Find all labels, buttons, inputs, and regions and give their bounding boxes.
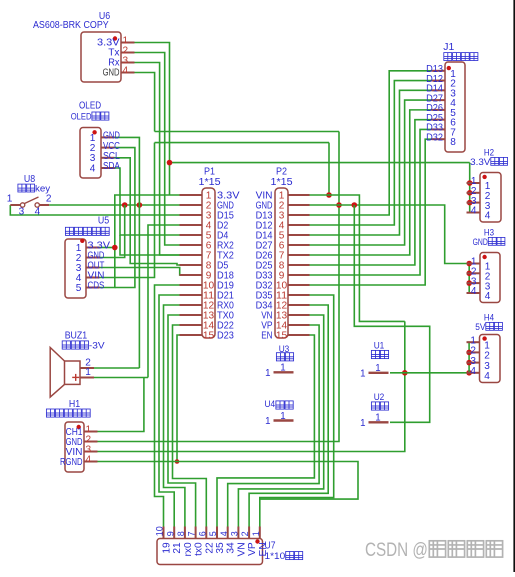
H4 pins: [467, 335, 491, 382]
component P1 box: [202, 188, 215, 338]
wire GND rail: [155, 131, 339, 133]
wire J1 pin6 net: [310, 120, 432, 265]
component H3 box: [480, 253, 500, 303]
wire 3V3 rail: [170, 162, 470, 164]
svg-text:1: 1: [265, 416, 270, 427]
svg-text:1: 1: [360, 368, 365, 379]
U5 labels: [65, 216, 109, 236]
wire D35: [260, 295, 334, 527]
wire VP: [228, 325, 319, 527]
BUZ1 labels: [62, 331, 105, 352]
svg-text:1: 1: [280, 411, 285, 422]
svg-text:5: 5: [76, 283, 82, 294]
wire GND to U2: [354, 205, 429, 422]
svg-text:8: 8: [176, 531, 186, 536]
junction H2 p3: [467, 200, 473, 206]
wire U8 right GND: [49, 204, 179, 206]
wire H2 s2: [467, 192, 470, 194]
wire OLED SCL: [115, 158, 180, 265]
wire D21: [159, 295, 180, 527]
svg-text:GND: GND: [103, 68, 120, 79]
wire J1 pin1 net: [310, 71, 432, 215]
wire P2 VIN row: [310, 195, 405, 321]
wire U5 OUT: [100, 268, 182, 276]
component P2 box: [275, 188, 288, 338]
svg-text:21: 21: [172, 542, 183, 554]
svg-text:2: 2: [240, 531, 250, 536]
J1 labels: [443, 42, 478, 61]
wire J1 pin8 net: [310, 139, 432, 285]
U5 pins: [76, 241, 111, 294]
U8 labels: [18, 174, 51, 194]
wire U6 pin2 Tx: [135, 53, 180, 246]
svg-text:15: 15: [276, 330, 288, 341]
U3 labels: [276, 344, 293, 361]
component H2 box: [480, 173, 501, 223]
svg-text:4: 4: [471, 286, 477, 297]
wire D34: [249, 305, 328, 527]
U7 labels: [265, 541, 303, 562]
junction H4 p2: [466, 350, 472, 356]
junction 5V U1row: [402, 370, 408, 376]
wire GND drop x339: [98, 132, 340, 442]
P2 labels: [271, 167, 294, 189]
wire H4 stub2: [467, 351, 470, 353]
wire J1 pin5 net: [310, 110, 432, 255]
junction H3 p2: [466, 271, 472, 277]
svg-text:9: 9: [165, 531, 175, 536]
svg-text:3: 3: [19, 207, 25, 218]
P1 labels: [199, 167, 222, 189]
svg-text:4: 4: [485, 211, 491, 222]
wire U1 row: [390, 372, 467, 374]
U5 pin1 marker: [80, 239, 84, 243]
H4 labels: [475, 313, 502, 332]
svg-text:4: 4: [123, 66, 129, 77]
svg-text:OLED: OLED: [71, 111, 92, 122]
wire U6 pin1 3.3V: [135, 43, 170, 196]
svg-text:U5: U5: [98, 216, 110, 227]
svg-text:10: 10: [155, 526, 165, 536]
svg-text:1: 1: [280, 363, 285, 374]
U1 labels: [371, 341, 388, 359]
svg-text:6: 6: [197, 531, 207, 536]
junction H2 p1: [467, 180, 473, 186]
junction GND b: [137, 202, 143, 208]
component U7 box: [157, 539, 263, 565]
wire H2 s3: [467, 202, 470, 204]
H2 labels: [470, 148, 507, 167]
U7 pins: [155, 526, 269, 556]
wire J1 pin2 net: [310, 81, 432, 225]
wire H4 column: [467, 342, 470, 373]
wire H2 s1: [467, 182, 470, 184]
junction H4 feed: [466, 370, 472, 376]
wire 5V drop P2VIN: [328, 143, 330, 195]
svg-text:CDS: CDS: [88, 281, 105, 292]
junction GND P2: [336, 202, 342, 208]
wire H3 s3: [467, 282, 470, 284]
svg-text:1: 1: [251, 531, 261, 536]
svg-text:EN: EN: [258, 542, 269, 556]
svg-text:4: 4: [470, 366, 476, 377]
U1 pin text: [360, 363, 381, 379]
H1 pin1 marker: [77, 425, 81, 429]
svg-text:SDA: SDA: [103, 161, 120, 172]
wire U5 GND: [100, 205, 125, 258]
svg-text:EN: EN: [261, 330, 272, 341]
wire 5V drop U5VIN: [100, 143, 155, 278]
svg-text:P1: P1: [204, 167, 215, 178]
H3 pins: [467, 257, 491, 303]
OLED labels: [71, 101, 109, 122]
wire H4 stub3: [467, 362, 470, 364]
wire 5V rail: [155, 142, 330, 144]
svg-text:GND: GND: [473, 237, 488, 247]
junction H3 p1: [466, 261, 472, 267]
component J1 box: [445, 62, 465, 152]
svg-text:4: 4: [471, 206, 477, 217]
svg-text:15: 15: [203, 330, 215, 341]
junction 3V3 rail: [167, 160, 173, 166]
wire H1 CH1: [98, 378, 144, 432]
svg-text:-3V: -3V: [89, 341, 105, 352]
svg-text:rx0: rx0: [183, 542, 194, 556]
H3 labels: [473, 228, 505, 247]
OLED pin1 marker: [92, 130, 96, 134]
wire BUZ pin1: [94, 377, 148, 379]
component U2 pad: [369, 421, 389, 423]
svg-text:8: 8: [450, 137, 456, 148]
wire U8 loop: [10, 205, 179, 215]
wire H2 column: [467, 163, 470, 213]
junction VIN: [326, 192, 332, 198]
svg-text:22: 22: [204, 542, 215, 554]
wire U6 pin4 GND: [135, 73, 155, 132]
P2 pins: [256, 190, 310, 341]
component BUZ1 buzzer: [50, 348, 94, 398]
svg-text:D23: D23: [217, 330, 234, 341]
wire RX0: [164, 305, 185, 527]
border right: [513, 0, 515, 572]
svg-text:5V: 5V: [475, 322, 486, 332]
wire D19: [155, 285, 180, 527]
component U8 switch: [7, 194, 52, 218]
H1 labels: [46, 399, 90, 417]
wire J1 pin4 net: [310, 100, 432, 245]
svg-text:19: 19: [162, 542, 173, 554]
svg-text:4: 4: [86, 455, 92, 466]
svg-text:1*15: 1*15: [271, 177, 294, 188]
U4 pin text: [265, 411, 286, 427]
junction H2 p2: [467, 190, 473, 196]
svg-text:4: 4: [219, 531, 229, 536]
wire J1 pin3 net: [310, 90, 432, 235]
J1 pin1 marker: [447, 66, 451, 70]
svg-text:4: 4: [90, 163, 96, 174]
wire OLED SDA: [115, 168, 180, 235]
H2 pins: [467, 176, 491, 222]
svg-text:1: 1: [85, 367, 91, 378]
wire H1 RGND: [98, 462, 359, 500]
svg-text:5: 5: [208, 531, 218, 536]
svg-text:4: 4: [35, 207, 41, 218]
svg-text:1*15: 1*15: [199, 177, 222, 188]
svg-text:7: 7: [187, 531, 197, 536]
H4 pin1 marker: [482, 336, 486, 340]
svg-text:RGND: RGND: [60, 457, 83, 468]
wire U6 pin3 Rx: [135, 63, 180, 256]
svg-text:P2: P2: [276, 167, 287, 178]
svg-text:1: 1: [360, 418, 365, 429]
svg-text:35: 35: [215, 542, 226, 554]
wire P1 D2 drop: [148, 225, 180, 378]
svg-text:H1: H1: [69, 399, 81, 410]
svg-text:AS608-BRK COPY: AS608-BRK COPY: [33, 20, 109, 31]
wire BUZ pin2: [94, 367, 139, 369]
junction GND c: [352, 202, 358, 208]
component OLED box: [80, 128, 101, 179]
wire GND row right: [310, 205, 467, 264]
svg-text:tx0: tx0: [194, 542, 205, 556]
svg-text:4: 4: [484, 371, 490, 382]
wire J1 pin7 net: [310, 129, 432, 275]
svg-text:U8: U8: [24, 174, 36, 185]
U3 pin text: [265, 363, 286, 379]
OLED pins: [90, 131, 120, 175]
wire OLED VCC: [115, 148, 135, 288]
U7 pin1 marker: [255, 539, 259, 543]
svg-text:3: 3: [230, 531, 240, 536]
P1 pins: [180, 190, 240, 341]
junction U5 3V3: [112, 245, 118, 251]
wire TX0: [168, 315, 196, 527]
U6 pin1 marker: [113, 36, 117, 40]
H3 pin1 marker: [482, 255, 486, 259]
svg-text:J1: J1: [443, 42, 454, 53]
svg-text:2: 2: [46, 194, 52, 205]
wire U5 3.3V: [100, 247, 115, 249]
svg-text:34: 34: [226, 542, 237, 554]
component U1 pad: [369, 372, 389, 374]
svg-text:1: 1: [375, 363, 380, 374]
svg-text:BUZ1: BUZ1: [65, 331, 88, 342]
component U3 pad: [274, 371, 294, 373]
H1 pins: [60, 425, 98, 468]
svg-text:1: 1: [7, 194, 13, 205]
J1 pins: [426, 64, 456, 148]
junction H4 p3: [466, 360, 472, 366]
svg-text:D32: D32: [426, 132, 443, 143]
wire 3V3 left column: [100, 195, 180, 288]
component U4 pad: [274, 419, 294, 421]
watermark: [365, 540, 503, 561]
svg-text:1: 1: [375, 413, 380, 424]
svg-text:VN: VN: [236, 542, 247, 556]
U2 pin text: [360, 413, 381, 429]
junction GND a: [122, 202, 128, 208]
wire SDA jog: [120, 235, 180, 255]
wire D23: [177, 335, 180, 462]
wire OLED GND: [115, 137, 140, 368]
junction H3 p3: [466, 280, 472, 286]
wire H1 VIN: [98, 321, 405, 451]
component H4 box: [480, 335, 501, 383]
H2 pin1 marker: [482, 175, 486, 179]
U4 labels: [265, 399, 294, 410]
wire EN: [217, 335, 314, 527]
svg-text:H4: H4: [484, 313, 494, 323]
wire D22: [173, 325, 207, 527]
wire H3 s2: [467, 272, 470, 274]
U6 labels: [33, 11, 110, 31]
junction D23 RGND: [175, 459, 180, 464]
component H1 box: [65, 422, 84, 472]
svg-text:1: 1: [265, 368, 270, 379]
component U5 box: [65, 239, 86, 298]
svg-text:4: 4: [485, 291, 491, 302]
wire VN: [238, 315, 323, 527]
svg-text:3.3V: 3.3V: [470, 157, 491, 167]
U2 labels: [371, 392, 388, 410]
U6 pins: [97, 36, 135, 79]
component U6 AS608-BRK COPY box: [81, 32, 121, 82]
svg-text:U2: U2: [374, 392, 385, 403]
svg-text:key: key: [35, 184, 51, 194]
svg-text:CSDN @: CSDN @: [365, 540, 428, 561]
svg-text:VP: VP: [247, 542, 258, 556]
svg-text:U4: U4: [265, 399, 276, 410]
svg-text:U1: U1: [374, 341, 385, 352]
wire H3 column: [467, 264, 470, 294]
